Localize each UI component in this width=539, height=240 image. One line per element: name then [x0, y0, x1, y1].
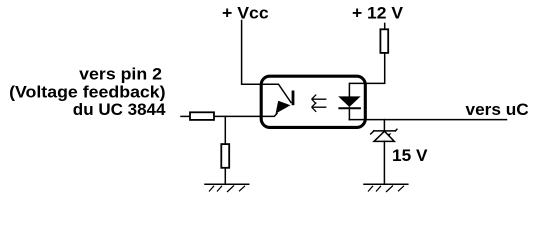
- svg-text:+ Vcc: + Vcc: [222, 4, 269, 23]
- svg-text:+ 12 V: + 12 V: [352, 3, 404, 22]
- svg-text:vers pin 2: vers pin 2: [79, 64, 162, 83]
- svg-text:vers uC: vers uC: [466, 100, 529, 119]
- svg-text:du UC 3844: du UC 3844: [73, 100, 166, 119]
- svg-text:(Voltage feedback): (Voltage feedback): [9, 83, 166, 102]
- svg-text:15 V: 15 V: [392, 146, 428, 165]
